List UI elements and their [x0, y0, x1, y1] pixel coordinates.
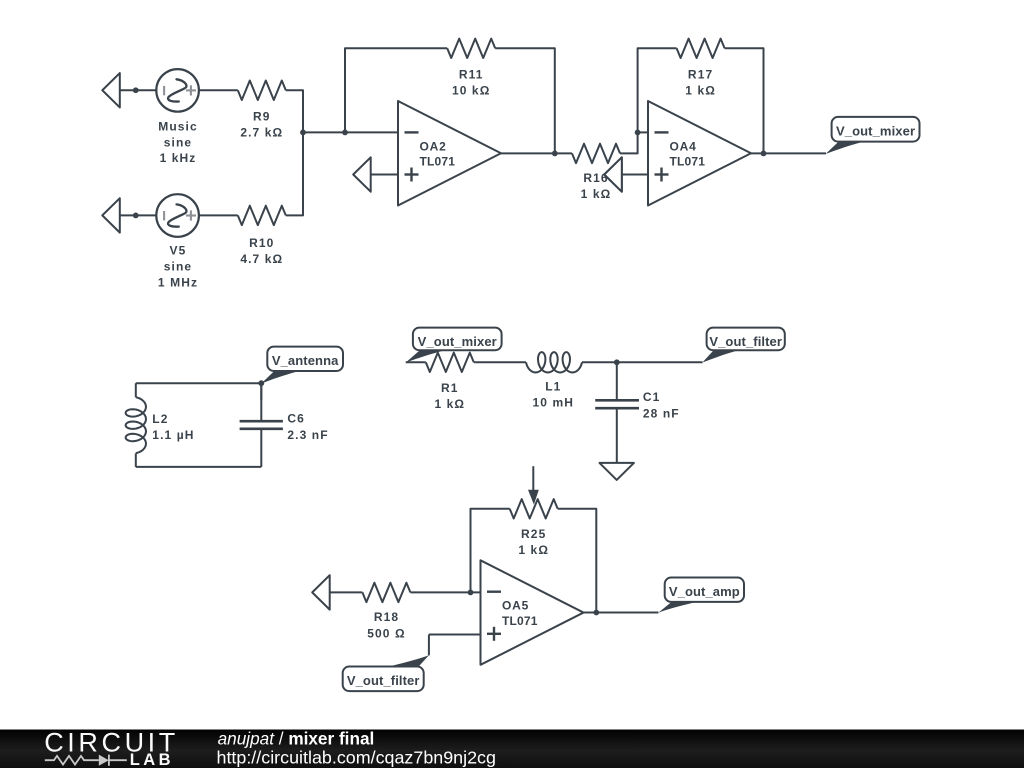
svg-text:R25: R25 — [521, 527, 546, 541]
svg-text:10 kΩ: 10 kΩ — [452, 83, 490, 97]
svg-text:Music: Music — [158, 120, 198, 134]
svg-text:1 kΩ: 1 kΩ — [685, 83, 716, 97]
svg-text:2.7 kΩ: 2.7 kΩ — [240, 125, 283, 139]
svg-text:V_out_mixer: V_out_mixer — [418, 334, 497, 349]
svg-text:1 MHz: 1 MHz — [158, 276, 198, 290]
svg-text:R1: R1 — [441, 381, 459, 395]
svg-text:10 mH: 10 mH — [533, 396, 575, 410]
svg-text:V_out_filter: V_out_filter — [709, 334, 782, 349]
svg-text:2.3 nF: 2.3 nF — [287, 428, 328, 442]
svg-text:sine: sine — [164, 135, 192, 149]
svg-text:C1: C1 — [643, 390, 661, 404]
svg-text:R10: R10 — [249, 236, 274, 250]
svg-text:V5: V5 — [170, 243, 187, 257]
svg-text:LAB: LAB — [130, 751, 174, 768]
svg-text:TL071: TL071 — [502, 614, 538, 628]
svg-text:TL071: TL071 — [670, 155, 706, 169]
svg-text:500 Ω: 500 Ω — [367, 626, 405, 640]
svg-text:4.7 kΩ: 4.7 kΩ — [240, 252, 283, 266]
svg-text:OA2: OA2 — [420, 139, 447, 153]
svg-text:L1: L1 — [545, 380, 561, 394]
svg-text:http://circuitlab.com/cqaz7bn9: http://circuitlab.com/cqaz7bn9nj2cg — [217, 748, 496, 768]
svg-text:1 kΩ: 1 kΩ — [434, 397, 465, 411]
svg-text:R17: R17 — [688, 67, 713, 81]
svg-text:V_out_mixer: V_out_mixer — [836, 124, 915, 139]
svg-text:TL071: TL071 — [420, 155, 456, 169]
svg-text:V_out_filter: V_out_filter — [347, 673, 420, 688]
svg-text:sine: sine — [164, 259, 192, 273]
svg-text:1.1 µH: 1.1 µH — [152, 428, 194, 442]
svg-text:L2: L2 — [152, 412, 168, 426]
svg-text:OA4: OA4 — [670, 139, 697, 153]
svg-text:28 nF: 28 nF — [643, 407, 680, 421]
svg-text:R9: R9 — [253, 109, 271, 123]
svg-text:1 kΩ: 1 kΩ — [518, 543, 549, 557]
svg-text:1 kHz: 1 kHz — [160, 151, 197, 165]
svg-text:OA5: OA5 — [502, 599, 529, 613]
svg-text:1 kΩ: 1 kΩ — [581, 187, 612, 201]
svg-text:anujpat / mixer final: anujpat / mixer final — [218, 729, 375, 749]
svg-text:V_out_amp: V_out_amp — [669, 584, 740, 599]
svg-text:R18: R18 — [374, 610, 399, 624]
svg-text:R11: R11 — [459, 67, 484, 81]
svg-text:V_antenna: V_antenna — [272, 353, 339, 368]
svg-text:C6: C6 — [287, 412, 305, 426]
